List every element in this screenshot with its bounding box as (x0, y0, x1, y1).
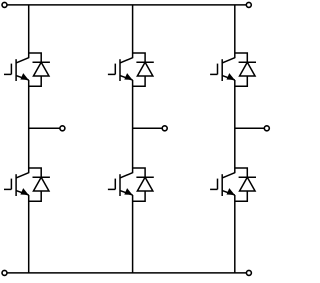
transistor Q3 (IGBT) (108, 58, 133, 81)
terminal phase output W (264, 126, 269, 131)
wire phase output U stub (29, 127, 60, 129)
transistor Q2 (IGBT) (4, 173, 29, 196)
wire D3 cathode branch (133, 53, 146, 62)
diode D6 (freewheeling) (239, 177, 256, 191)
diode D5 (freewheeling) (239, 62, 256, 76)
wire D4 anode branch (133, 191, 146, 201)
terminal phase output V (162, 126, 167, 131)
transistor Q4 (IGBT) (108, 173, 133, 196)
wire D1 cathode branch (29, 53, 42, 62)
wire D4 cathode branch (133, 168, 146, 177)
wire leg 1: DC+ bus to Q1 collector (28, 5, 30, 58)
wire leg 2: Q3 emitter to Q4 collector (phase node) (132, 80, 134, 173)
wire leg 1: Q2 emitter to DC- bus (28, 195, 30, 273)
wire leg 3: Q5 emitter to Q6 collector (phase node) (234, 80, 236, 173)
diode D2 (freewheeling) (33, 177, 50, 191)
wire D2 cathode branch (29, 168, 42, 177)
wire leg 2: Q4 emitter to DC- bus (132, 195, 134, 273)
terminal P (DC+ left) (2, 2, 7, 7)
terminal P (DC+ right) (246, 2, 251, 7)
wire D5 cathode branch (235, 53, 248, 62)
terminal phase output U (60, 126, 65, 131)
diode D3 (freewheeling) (136, 62, 153, 76)
wire phase output V stub (133, 127, 163, 129)
transistor Q6 (IGBT) (210, 173, 235, 196)
wire DC- bus (bottom rail) (7, 272, 247, 274)
terminal N (DC- right) (246, 270, 251, 275)
diode D1 (freewheeling) (33, 62, 50, 76)
diode D4 (freewheeling) (136, 177, 153, 191)
wire DC+ bus (top rail) (7, 4, 247, 6)
wire D5 anode branch (235, 76, 248, 86)
wire leg 3: DC+ bus to Q5 collector (234, 5, 236, 58)
wire D2 anode branch (29, 191, 42, 201)
wire leg 3: Q6 emitter to DC- bus (234, 195, 236, 273)
wire D1 anode branch (29, 76, 42, 86)
transistor Q5 (IGBT) (210, 58, 235, 81)
wire phase output W stub (235, 127, 264, 129)
wire D6 anode branch (235, 191, 248, 201)
wire D6 cathode branch (235, 168, 248, 177)
wire D3 anode branch (133, 76, 146, 86)
wire leg 1: Q1 emitter to Q2 collector (phase node) (28, 80, 30, 173)
transistor Q1 (IGBT) (4, 58, 29, 81)
wire leg 2: DC+ bus to Q3 collector (132, 5, 134, 58)
terminal N (DC- left) (2, 270, 7, 275)
